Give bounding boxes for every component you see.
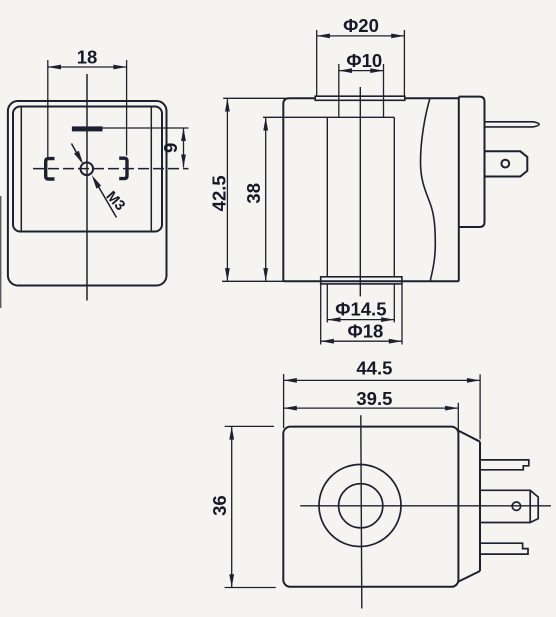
coil front outer body outline (8, 101, 167, 286)
dimension 9 line (183, 128, 185, 168)
vertical center line front view (86, 74, 88, 301)
inner face left step line (20, 108, 22, 232)
dimension phi20 extension left (316, 30, 318, 96)
phi10 bore extension right (383, 64, 385, 117)
center screw hole circle (81, 163, 94, 176)
svg-text:Φ10: Φ10 (346, 50, 382, 71)
phi10 bore extension left (338, 64, 340, 117)
molded profile S-curve (421, 98, 436, 281)
horizontal dashed center line front view (33, 168, 189, 170)
36 top arrow (229, 426, 234, 439)
svg-text:36: 36 (209, 495, 230, 516)
dimension 38 line (265, 117, 267, 281)
M3 leader upper arrowhead (74, 151, 83, 165)
36 bottom arrow (229, 574, 234, 587)
left mounting bracket (46, 159, 55, 179)
phi10 right arrow (370, 68, 383, 73)
dimension 42.5 line (226, 98, 228, 281)
dimension 18 right arrow (113, 65, 126, 70)
dimension 18 extension line right (126, 60, 128, 156)
dimension 36 line (231, 426, 233, 587)
dimension phi14.5 line (327, 319, 394, 321)
svg-text:9: 9 (160, 143, 181, 153)
bottom flange side view (321, 277, 402, 284)
connector bottom chamfer bottom view (458, 571, 480, 582)
dimension 44.5 extension left (283, 374, 285, 428)
armature tube top (315, 96, 405, 100)
39.5 left arrow (284, 406, 297, 411)
svg-text:Φ14.5: Φ14.5 (335, 299, 386, 320)
slot extension line to dimension 9 (102, 127, 189, 129)
39.5 right arrow (445, 406, 458, 411)
dimension 18 left arrow (48, 65, 61, 70)
horizontal center line bottom view (300, 505, 551, 507)
phi14.5 right arrow (381, 317, 394, 322)
dimension 44.5 line (284, 379, 481, 381)
dimension phi14.5 extension right (393, 284, 395, 323)
phi10 left arrow (339, 68, 352, 73)
dimension 42.5 bottom extension (222, 280, 283, 282)
connector block side view (459, 97, 485, 227)
svg-text:Φ20: Φ20 (343, 15, 379, 36)
bobbin bore right line (393, 117, 395, 277)
inner circle bottom view (339, 484, 383, 528)
dimension 36 bottom extension (225, 587, 276, 589)
connector face bottom view (479, 442, 481, 571)
svg-text:44.5: 44.5 (356, 358, 392, 379)
center axis line side view (359, 87, 361, 296)
dimension phi18 line (321, 340, 402, 342)
dimension phi20 extension right (403, 30, 405, 96)
M3 leader lower segment (94, 179, 117, 218)
38 bottom arrow (263, 268, 268, 281)
coil bottom view body outline (283, 427, 458, 587)
44.5 left arrow (284, 378, 297, 383)
phi14.5 left arrow (327, 317, 340, 322)
dimension 44.5 extension right (479, 374, 481, 439)
dimension 42.5 top extension (223, 97, 285, 99)
dimension 18 extension line left (47, 60, 49, 157)
middle pin hole bottom view (512, 502, 520, 510)
phi18 left arrow (321, 339, 334, 344)
M3 leader lower arrowhead (92, 175, 101, 189)
dimension 9 bottom arrow (181, 155, 186, 168)
dimension 39.5 extension right (457, 403, 459, 431)
vertical center line bottom view (361, 415, 362, 608)
outer circle bottom view (319, 465, 401, 547)
scan edge artifact left (0, 196, 2, 308)
phi20 right arrow (391, 34, 404, 39)
dimension 36 top extension (225, 425, 274, 427)
dimension phi18 extension left (320, 284, 322, 345)
phi18 right arrow (389, 339, 402, 344)
spade terminal side view (485, 151, 528, 176)
coil side body left edge (283, 98, 315, 281)
bobbin bore left line (326, 117, 328, 277)
svg-text:18: 18 (77, 47, 98, 68)
terminal slot (72, 127, 102, 131)
coil side body right edge (458, 97, 460, 282)
M3 leader upper segment (72, 144, 82, 162)
coil side body top edge right of tube (405, 97, 459, 99)
dimension phi18 extension right (401, 284, 403, 345)
44.5 right arrow (467, 378, 480, 383)
spade terminal hole (501, 160, 509, 168)
38 top arrow (263, 117, 268, 130)
middle pin bottom view (480, 490, 538, 522)
42.5 bottom arrow (225, 268, 230, 281)
coil side body bottom edge (283, 280, 459, 282)
dimension phi10 line (339, 70, 384, 72)
dimension phi14.5 extension left (326, 284, 328, 323)
top pin bottom view (480, 460, 529, 470)
coil front inner face outline (13, 107, 162, 232)
svg-text:39.5: 39.5 (356, 388, 392, 409)
dimension 9 top arrow (181, 128, 186, 141)
svg-text:42.5: 42.5 (208, 175, 229, 211)
svg-text:Φ18: Φ18 (348, 321, 384, 342)
inner face right step line (150, 108, 152, 232)
bottom pin bottom view (480, 543, 528, 554)
phi20 left arrow (317, 34, 330, 39)
internal bobbin line horizontal (263, 116, 394, 118)
dimension 39.5 line (284, 407, 459, 409)
svg-text:38: 38 (243, 183, 264, 204)
connector top chamfer bottom view (458, 431, 480, 442)
dimension 18 line (48, 66, 127, 68)
middle pin tip base line (529, 490, 531, 522)
42.5 top arrow (225, 98, 230, 111)
top pin side view (485, 122, 540, 127)
right mounting bracket (119, 158, 127, 178)
dimension phi20 line (317, 35, 405, 37)
